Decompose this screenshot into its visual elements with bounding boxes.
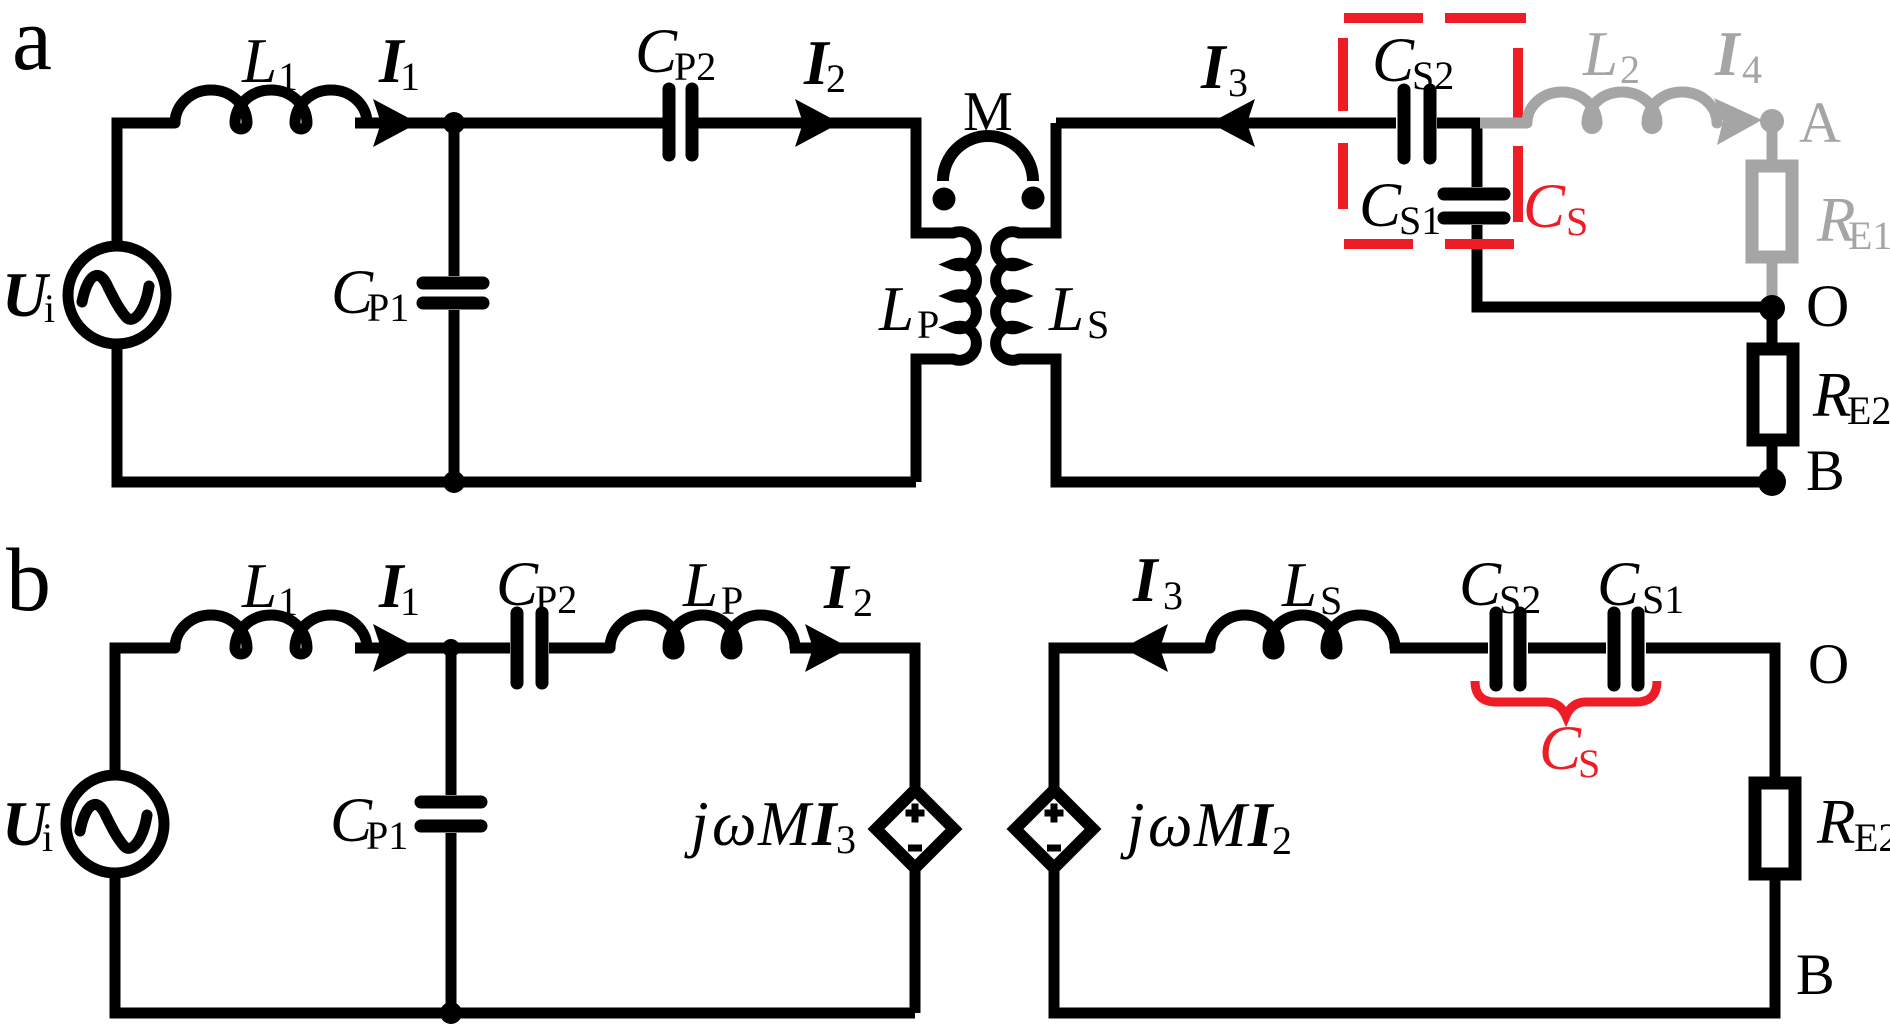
transformer primary coil LP [953,232,976,360]
source Ui [68,246,166,344]
node O [1759,295,1785,321]
wire from CS1 to node O [1477,225,1772,307]
svg-text:C: C [1359,170,1402,240]
svg-text:S: S [1578,741,1600,786]
svg-text:S: S [1087,302,1109,347]
svg-text:C: C [635,16,678,86]
svg-text:C: C [1372,25,1415,95]
svg-text:P2: P2 [674,44,716,89]
gray wire [1767,121,1778,166]
arrow I3 b [1123,624,1168,672]
svg-text:S: S [1566,199,1588,244]
svg-text:ω: ω [712,789,756,859]
svg-text:P: P [917,302,939,347]
svg-text:S: S [1320,578,1342,623]
svg-text:E2: E2 [1847,388,1890,433]
capacitor CS1 [1444,194,1504,218]
svg-text:C: C [1597,549,1640,619]
node bottom b [440,1002,462,1024]
svg-text:2: 2 [826,56,846,101]
wire [1767,308,1778,349]
svg-text:M: M [1193,790,1250,860]
inductor L1 b [175,615,367,654]
svg-text:I: I [1714,19,1742,89]
wire [1646,648,1775,777]
gray node A [1760,109,1784,133]
wire [698,123,953,233]
svg-text:I: I [1247,790,1275,860]
svg-text:L: L [1281,550,1317,620]
arrow I1 [373,99,418,147]
svg-text:S1: S1 [1642,577,1684,622]
svg-text:4: 4 [1742,47,1762,92]
wire CP1 branch [449,123,460,276]
svg-text:R: R [1816,787,1855,857]
svg-text:S1: S1 [1399,198,1441,243]
svg-text:P: P [721,578,743,623]
resistor RE2 [1753,349,1793,440]
wire CP1 branch b [446,648,457,795]
gray wire [1767,257,1778,300]
svg-text:I: I [1200,32,1228,102]
capacitor CP1 [423,283,483,303]
wire [549,643,610,654]
svg-text:2: 2 [853,580,873,625]
wire [1767,440,1778,482]
wire: left loop of circuit a [117,123,175,246]
wire [1019,123,1056,233]
dot secondary [1022,187,1045,210]
svg-text:M: M [963,81,1013,143]
transformer secondary coil LS [996,232,1019,360]
svg-text:L: L [241,551,277,621]
svg-text:ω: ω [1148,790,1192,860]
svg-text:1: 1 [400,54,420,99]
svg-text:L: L [682,550,718,620]
svg-text:1: 1 [400,579,420,624]
capacitor CP2 [669,89,692,155]
node junction b [442,639,460,657]
svg-text:P1: P1 [367,285,409,330]
capacitor CS2 [1404,90,1430,158]
svg-text:3: 3 [836,817,856,862]
svg-text:I: I [811,789,839,859]
svg-text:C: C [496,549,539,619]
svg-text:O: O [1808,633,1849,696]
inductor LS b [1210,615,1395,654]
svg-text:O: O [1806,273,1849,339]
resistor RE2 b [1755,783,1795,874]
svg-text:S2: S2 [1412,53,1454,98]
svg-text:i: i [44,286,55,331]
svg-text:L: L [1048,274,1084,344]
dependent source jwMI2 [1015,790,1093,868]
svg-text:2: 2 [1620,47,1640,92]
svg-text:3: 3 [1228,60,1248,105]
svg-text:1: 1 [278,54,298,99]
svg-text:C: C [1539,713,1582,783]
mutual coupling arc M [943,136,1033,181]
wire [916,359,953,482]
inductor LP b [610,615,795,654]
wire to junction [1437,123,1480,187]
gray arrow I4 [1714,98,1762,145]
svg-text:a: a [12,0,52,89]
arrow I1 b [373,624,418,672]
wire secondary top [1056,118,1396,129]
svg-text:L: L [878,274,914,344]
svg-text:B: B [1796,942,1835,1007]
svg-text:I: I [1132,545,1160,615]
wire [1390,643,1488,654]
svg-text:3: 3 [1163,573,1183,618]
svg-text:A: A [1799,90,1841,155]
svg-text:E2: E2 [1854,815,1890,860]
svg-text:B: B [1806,438,1845,503]
svg-text:b: b [6,531,51,630]
capacitor CP2 b [517,613,542,683]
dependent source jwMI3 [876,790,954,868]
arrow I3 [1210,99,1255,147]
dot primary [933,188,956,211]
svg-text:R: R [1812,360,1851,430]
svg-text:C: C [1459,549,1502,619]
capacitor CS2 b [1496,613,1520,685]
svg-text:i: i [42,815,53,860]
svg-text:S2: S2 [1499,577,1541,622]
node junction top [443,112,465,134]
inductor L1 [175,90,367,129]
svg-text:L: L [1582,19,1618,89]
red dashed box [1343,18,1526,244]
svg-text:P1: P1 [366,813,408,858]
wire below source [910,868,921,1013]
wire right loop b [1054,648,1210,790]
resistor RE1 gray [1752,166,1792,257]
node junction bottom [443,471,465,493]
wire: left loop of circuit b [115,648,175,775]
wire [355,643,510,654]
capacitor CS1 b [1614,613,1638,685]
svg-text:L: L [241,26,277,96]
svg-text:P2: P2 [535,577,577,622]
red brace CS [1475,681,1657,716]
svg-text:2: 2 [1272,818,1292,863]
svg-text:I: I [823,552,851,622]
gray inductor L2 [1527,92,1717,129]
capacitor CP1 b [421,802,481,826]
svg-text:1: 1 [278,579,298,624]
gray wire [1480,118,1527,129]
arrow I2 [795,99,840,147]
wire [790,648,915,790]
svg-text:C: C [1523,171,1566,241]
svg-text:M: M [757,789,814,859]
node B [1758,468,1786,496]
arrow I2 b [805,624,850,672]
wire [1528,643,1606,654]
wire [355,118,663,129]
svg-text:E1: E1 [1848,213,1890,258]
source Ui b [66,775,164,873]
